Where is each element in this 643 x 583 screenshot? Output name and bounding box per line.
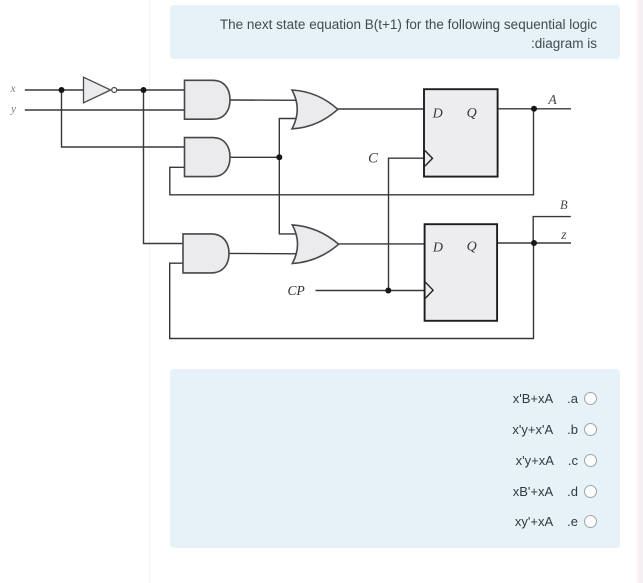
junction node A	[531, 106, 537, 112]
svg-text:Q: Q	[467, 106, 477, 121]
wire B stub	[533, 217, 571, 243]
AND gate 3	[183, 234, 229, 273]
svg-text:A: A	[547, 93, 557, 108]
wire AND3 output to OR2	[228, 252, 300, 254]
OR gate 1	[292, 90, 338, 129]
wire OR1 lower input from AND2 node	[279, 119, 300, 158]
option a	[170, 388, 621, 408]
wire x input	[25, 89, 84, 91]
wire OR1 output to D of FF1	[337, 108, 425, 110]
svg-text:B: B	[560, 198, 568, 212]
junction node on x	[59, 87, 65, 93]
option c	[170, 451, 621, 471]
wire y input to AND1	[25, 109, 190, 111]
wire vertical from node x' down to AND3	[144, 90, 190, 244]
wire AND2 output	[228, 156, 279, 158]
svg-text:x: x	[10, 83, 17, 95]
svg-text:Q: Q	[467, 240, 477, 255]
OR gate 2	[292, 225, 338, 264]
wire AND2 lower input feedback from A	[170, 109, 534, 195]
svg-text:y: y	[10, 104, 17, 116]
AND gate 2	[185, 138, 231, 177]
junction node x'	[141, 87, 147, 93]
FF1 clock triangle	[425, 151, 433, 167]
options box	[170, 369, 621, 548]
FF2 clock triangle	[426, 282, 434, 298]
junction node B	[531, 240, 537, 246]
svg-text:CP: CP	[288, 283, 305, 298]
D flip-flop U1	[424, 89, 498, 176]
wire FF2 Q output to z	[497, 242, 571, 244]
junction node CP	[385, 288, 391, 294]
question box	[170, 5, 621, 59]
wire OR2 output to D of FF2	[337, 243, 426, 245]
svg-text:z: z	[560, 227, 567, 242]
wire node to OR2 upper input	[279, 157, 302, 234]
option b	[170, 419, 621, 439]
D flip-flop U2	[425, 224, 498, 321]
junction node AND2 output	[276, 154, 282, 160]
svg-text:C: C	[368, 150, 379, 166]
wire inverter output to AND1	[117, 89, 191, 91]
svg-text:D: D	[432, 107, 443, 122]
column separator line right	[636, 0, 643, 583]
column separator line left	[149, 0, 151, 583]
AND gate 1	[185, 80, 231, 119]
wire FF1 Q output to A	[498, 108, 571, 110]
wire AND3 lower input feedback from B	[170, 243, 534, 339]
wire clock C to FF1	[389, 158, 425, 290]
inverter gate	[84, 77, 117, 103]
wire CP line	[316, 290, 426, 292]
option d	[170, 482, 621, 502]
wire AND1 output to OR1	[228, 99, 300, 101]
option e	[170, 511, 621, 531]
svg-text:D: D	[432, 240, 443, 255]
wire vertical from node x down	[62, 90, 191, 147]
